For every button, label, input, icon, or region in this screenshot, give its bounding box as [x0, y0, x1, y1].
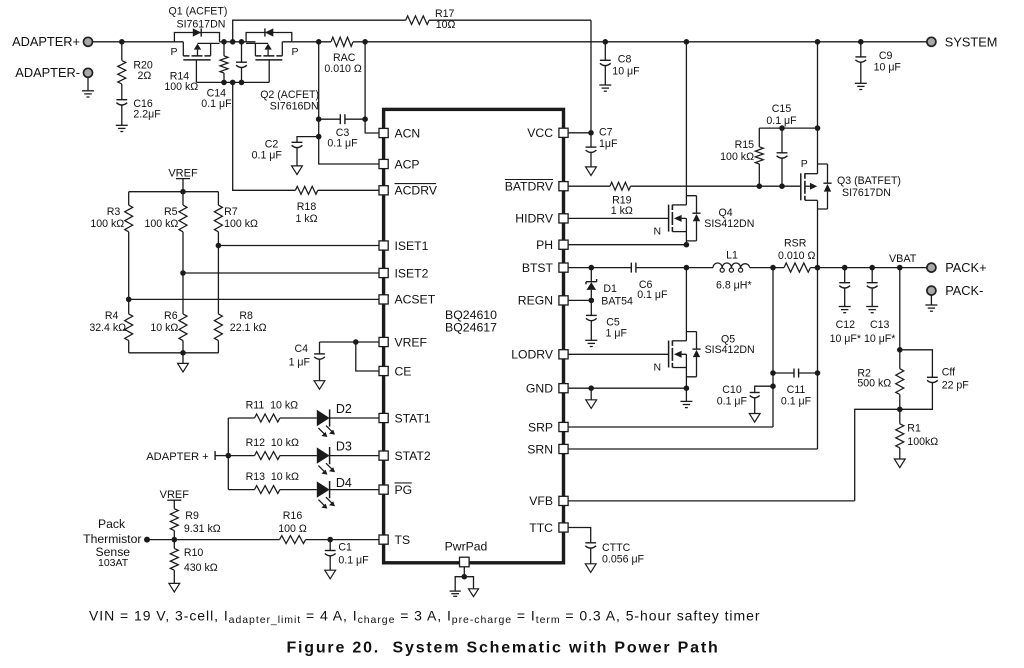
svg-text:Figure 20. System Schematic w: Figure 20. System Schematic with Power P… [286, 640, 719, 657]
ground C4 [314, 381, 325, 390]
wire VCC [568, 130, 594, 136]
ground C2 [292, 166, 303, 175]
svg-text:10 μF: 10 μF [874, 61, 902, 73]
svg-text:R7: R7 [224, 206, 238, 218]
wire L1 to RSR [750, 265, 784, 271]
ground GND left [586, 388, 597, 408]
resistor R16 [278, 510, 307, 543]
svg-text:BAT54: BAT54 [601, 296, 633, 308]
capacitor C8 [600, 42, 640, 85]
wire LED vertical [226, 418, 232, 490]
svg-text:SI7617DN: SI7617DN [177, 19, 226, 31]
svg-text:SRP: SRP [528, 420, 553, 434]
wire BTST [568, 265, 631, 271]
svg-text:SI7617DN: SI7617DN [842, 187, 891, 199]
wire SRP [568, 268, 776, 427]
svg-text:R12 10 kΩ: R12 10 kΩ [246, 437, 299, 449]
svg-text:REGN: REGN [518, 294, 553, 308]
svg-text:100 kΩ: 100 kΩ [224, 218, 258, 230]
svg-text:CTTC: CTTC [602, 542, 631, 554]
svg-text:R4: R4 [105, 310, 119, 322]
wire TS net [147, 537, 280, 543]
svg-text:1 kΩ: 1 kΩ [295, 213, 317, 225]
svg-text:C13: C13 [870, 319, 890, 331]
svg-text:9.31 kΩ: 9.31 kΩ [184, 523, 221, 535]
svg-text:RSR: RSR [784, 238, 807, 250]
pin ISET2 [379, 266, 429, 280]
wire divider bottom rail [129, 350, 219, 363]
capacitor Cff [900, 350, 970, 410]
junction BTST/PH/L1 node [684, 265, 690, 271]
svg-text:100 kΩ: 100 kΩ [720, 151, 754, 163]
caption figure title [286, 640, 719, 657]
wire BATDRV to Q3 gate [631, 183, 801, 189]
pin PG [379, 483, 412, 497]
svg-text:R8: R8 [239, 310, 253, 322]
wire CE [356, 342, 379, 371]
svg-text:C4: C4 [294, 343, 308, 355]
svg-text:1μF: 1μF [599, 138, 618, 150]
resistor RAC [324, 37, 361, 75]
svg-text:VIN = 19 V, 3-cell, Iadapter_l: VIN = 19 V, 3-cell, Iadapter_limit = 4 A… [89, 608, 760, 627]
svg-text:STAT2: STAT2 [395, 449, 431, 463]
ground C8 [599, 85, 611, 91]
node ADAPTER + (LED supply) [146, 451, 228, 463]
svg-text:430 kΩ: 430 kΩ [184, 562, 218, 574]
svg-text:R3: R3 [107, 206, 121, 218]
ground C12 [839, 307, 851, 313]
svg-text:100 Ω: 100 Ω [278, 523, 307, 535]
wire REGN [568, 298, 594, 304]
capacitor C13 [864, 268, 895, 345]
resistor R17 [233, 8, 591, 133]
svg-text:Q3 (BATFET): Q3 (BATFET) [837, 175, 901, 187]
svg-text:N: N [654, 226, 662, 238]
svg-text:R1: R1 [907, 422, 921, 434]
svg-text:10 μF: 10 μF [612, 65, 640, 77]
LED D4 [280, 476, 379, 509]
junction divider mid [897, 407, 903, 413]
svg-text:R15: R15 [735, 139, 755, 151]
svg-text:Thermistor: Thermistor [83, 532, 141, 546]
pin ACDRV [379, 184, 438, 198]
svg-text:VCC: VCC [527, 126, 553, 140]
transistor Q5 SIS412DN [568, 268, 755, 389]
svg-text:C7: C7 [599, 127, 613, 139]
wire R18 to ACDRV pin [318, 189, 379, 191]
ground R1 [894, 459, 905, 468]
wire SRN [568, 268, 820, 449]
wire VFB [568, 409, 900, 501]
svg-text:P: P [292, 46, 299, 58]
svg-text:P: P [170, 46, 177, 58]
svg-text:D2: D2 [336, 402, 352, 416]
caption conditions line [89, 608, 760, 627]
resistor R13 [228, 471, 299, 494]
resistor R14 [164, 42, 228, 93]
ground C9 [855, 83, 867, 89]
pin SRN [527, 442, 568, 456]
svg-text:PG: PG [395, 483, 413, 497]
wire RAC to SYSTEM rail [353, 39, 927, 45]
diode D1 BAT54 [586, 268, 633, 308]
svg-text:0.1 μF: 0.1 μF [201, 98, 232, 110]
svg-text:R9: R9 [185, 510, 199, 522]
svg-text:CE: CE [395, 364, 412, 378]
ground PwrPad right [469, 589, 479, 597]
resistor R6 [150, 273, 187, 353]
svg-text:C15: C15 [772, 103, 792, 115]
ground C7 [586, 167, 597, 176]
node Pack Thermistor Sense [83, 517, 150, 569]
svg-text:2.2μF: 2.2μF [133, 109, 161, 121]
ground C13 [866, 307, 878, 313]
svg-text:0.010 Ω: 0.010 Ω [324, 63, 361, 75]
svg-text:R16: R16 [283, 510, 303, 522]
svg-text:TS: TS [395, 533, 411, 547]
wire Q1-Q2 common node [220, 39, 256, 45]
svg-text:VBAT: VBAT [889, 253, 917, 265]
capacitor C16 [116, 84, 161, 125]
svg-text:VFB: VFB [529, 494, 553, 508]
svg-text:BTST: BTST [522, 261, 554, 275]
wire GND [568, 385, 689, 391]
pin BTST [522, 261, 568, 275]
svg-text:SIS412DN: SIS412DN [705, 344, 755, 356]
svg-text:SIS412DN: SIS412DN [704, 218, 754, 230]
inductor L1 [686, 250, 751, 292]
svg-text:C11: C11 [787, 384, 806, 396]
svg-text:100 kΩ: 100 kΩ [144, 218, 178, 230]
pin ACP [379, 157, 420, 171]
resistor R20 [118, 42, 153, 84]
pin ACSET [379, 293, 436, 307]
svg-text:0.010 Ω: 0.010 Ω [778, 250, 815, 262]
resistor R18 [295, 186, 317, 225]
ground CTTC [585, 564, 596, 573]
ground C1 [325, 570, 336, 579]
svg-text:2Ω: 2Ω [138, 70, 152, 82]
svg-text:10Ω: 10Ω [436, 19, 456, 31]
ground Q5 source [680, 388, 692, 407]
wire Q2 to RAC [282, 39, 331, 45]
pin VREF [379, 335, 427, 349]
capacitor C3 [319, 114, 365, 149]
svg-text:PwrPad: PwrPad [445, 540, 488, 554]
node ADAPTER+ terminal [12, 34, 92, 49]
svg-text:Q1 (ACFET): Q1 (ACFET) [169, 6, 228, 18]
svg-text:10 μF*: 10 μF* [864, 333, 895, 345]
svg-text:PACK-: PACK- [945, 283, 983, 298]
svg-text:BQ24617: BQ24617 [445, 321, 497, 335]
wire PH [568, 242, 689, 248]
svg-text:R13 10 kΩ: R13 10 kΩ [246, 471, 299, 483]
node PACK+ terminal [927, 260, 987, 275]
ground R10 [169, 583, 180, 592]
svg-text:C9: C9 [879, 50, 893, 62]
svg-text:Pack: Pack [98, 517, 126, 531]
svg-text:100 kΩ: 100 kΩ [90, 218, 124, 230]
svg-text:0.056 μF: 0.056 μF [602, 554, 645, 566]
svg-text:0.1 μF: 0.1 μF [338, 555, 369, 567]
resistor R12 [228, 437, 299, 460]
LED D3 [280, 440, 379, 475]
resistor R15 [720, 128, 763, 186]
svg-text:PH: PH [536, 238, 553, 252]
pin REGN [518, 294, 568, 308]
svg-text:0.1 μF: 0.1 μF [252, 149, 283, 161]
svg-text:1 μF: 1 μF [289, 357, 311, 369]
svg-text:C10: C10 [722, 384, 742, 396]
resistor RSR [778, 238, 815, 273]
svg-text:SI7616DN: SI7616DN [270, 101, 319, 113]
svg-text:PACK+: PACK+ [945, 260, 986, 275]
capacitor C4 [289, 342, 325, 381]
svg-text:ADAPTER +: ADAPTER + [146, 451, 208, 463]
wire ISET2 [180, 232, 379, 276]
svg-text:Cff: Cff [942, 366, 955, 378]
wire ACN vertical [362, 42, 379, 133]
pin STAT1 [379, 411, 431, 425]
wire ACSET [126, 232, 379, 302]
pin VCC [527, 126, 568, 140]
svg-text:103AT: 103AT [98, 557, 129, 569]
svg-text:100kΩ: 100kΩ [907, 436, 938, 448]
svg-text:R6: R6 [164, 310, 178, 322]
svg-text:C1: C1 [338, 542, 352, 554]
svg-text:0.1 μF: 0.1 μF [717, 395, 748, 407]
svg-text:ADAPTER-: ADAPTER- [15, 65, 80, 80]
svg-text:500 kΩ: 500 kΩ [857, 378, 891, 390]
resistor R1 [896, 409, 938, 459]
transistor Q4 SIS412DN [568, 42, 754, 245]
svg-text:D3: D3 [336, 440, 352, 454]
pin TTC [529, 521, 568, 535]
ground C5 [585, 340, 597, 346]
resistor R5 [144, 192, 187, 232]
node VREF supply (resistor network) [168, 167, 198, 191]
wire VREF pin [320, 339, 380, 345]
capacitor C15 [766, 103, 797, 186]
svg-text:0.1 μF: 0.1 μF [327, 138, 358, 150]
ground PwrPad left [450, 591, 461, 596]
capacitor C6 [631, 263, 686, 302]
capacitor C7 [586, 127, 618, 167]
svg-text:GND: GND [526, 382, 553, 396]
svg-text:SYSTEM: SYSTEM [945, 34, 998, 49]
svg-text:R10: R10 [184, 547, 204, 559]
pin TS [379, 533, 410, 547]
svg-text:STAT1: STAT1 [395, 411, 431, 425]
svg-text:SRN: SRN [527, 442, 553, 456]
wire ACDRV vertical [233, 82, 296, 190]
wire VBAT rail [810, 253, 927, 271]
pin ACN [379, 126, 420, 140]
pin BATDRV [505, 180, 568, 194]
transistor Q2 ACFET SI7616DN [246, 28, 319, 112]
wire C15 top [759, 125, 820, 131]
svg-text:ISET2: ISET2 [395, 266, 429, 280]
svg-text:32.4 kΩ: 32.4 kΩ [89, 322, 126, 334]
svg-text:D1: D1 [603, 283, 617, 295]
svg-text:0.1 μF: 0.1 μF [781, 395, 812, 407]
svg-text:22.1 kΩ: 22.1 kΩ [230, 322, 267, 334]
resistor R4 [89, 299, 132, 352]
capacitor C2 [252, 137, 319, 166]
capacitor C1 [325, 540, 369, 571]
transistor Q3 BATFET SI7617DN [801, 42, 901, 268]
pin PwrPad [445, 540, 488, 567]
svg-text:10 kΩ: 10 kΩ [150, 322, 178, 334]
svg-text:ISET1: ISET1 [395, 239, 429, 253]
svg-text:VREF: VREF [168, 167, 198, 179]
wire ACP vertical [316, 42, 379, 164]
svg-text:C12: C12 [836, 319, 856, 331]
wire ADAPTER+ to Q1 [92, 39, 183, 45]
capacitor C11 [773, 369, 818, 408]
node SYSTEM terminal [927, 34, 998, 49]
ground C16 [116, 125, 128, 131]
resistor R3 [90, 192, 132, 232]
ground divider [178, 363, 189, 372]
svg-text:22 pF: 22 pF [942, 379, 970, 391]
svg-text:L1: L1 [726, 250, 738, 262]
svg-text:1 kΩ: 1 kΩ [611, 205, 633, 217]
svg-text:VREF: VREF [395, 335, 428, 349]
svg-text:ACDRV: ACDRV [395, 184, 438, 198]
pin STAT2 [379, 449, 431, 463]
pin CE [379, 364, 411, 378]
ground C10 [749, 414, 760, 423]
svg-text:ACN: ACN [395, 126, 421, 140]
svg-text:VREF: VREF [160, 489, 190, 501]
capacitor C9 [855, 42, 901, 84]
svg-text:N: N [654, 361, 662, 373]
resistor R19 [568, 182, 633, 217]
svg-text:0.1 μF: 0.1 μF [766, 115, 797, 127]
pin GND [526, 382, 568, 396]
wire R16 to TS pin [306, 537, 379, 543]
capacitor C5 [586, 300, 628, 340]
pin SRP [528, 420, 568, 434]
svg-text:0.1 μF: 0.1 μF [637, 289, 668, 301]
resistor R7 [214, 192, 258, 232]
pin VFB [529, 494, 568, 508]
pin HIDRV [515, 212, 568, 226]
ground PACK- [925, 295, 937, 311]
capacitor CTTC [568, 528, 644, 566]
svg-text:ACP: ACP [395, 157, 420, 171]
capacitor C12 [830, 268, 861, 345]
svg-text:Q2 (ACFET): Q2 (ACFET) [260, 89, 319, 101]
capacitor C14 [201, 42, 247, 110]
wire VREF rail [129, 189, 219, 195]
svg-text:HIDRV: HIDRV [515, 212, 554, 226]
svg-text:R11 10 kΩ: R11 10 kΩ [246, 400, 299, 412]
svg-text:ADAPTER+: ADAPTER+ [12, 34, 80, 49]
resistor R8 [214, 246, 266, 353]
op-amp U1 charge controller BQ24610 IC body [384, 109, 564, 562]
LED D2 [280, 402, 379, 437]
svg-text:D4: D4 [336, 476, 352, 490]
svg-text:R5: R5 [164, 206, 178, 218]
wire VBAT to divider [897, 268, 903, 353]
wire ISET1 [216, 232, 379, 249]
resistor R2 [857, 350, 903, 410]
svg-text:P: P [801, 158, 808, 170]
resistor R10 [170, 540, 218, 584]
capacitor C10 [717, 384, 773, 414]
svg-text:100 kΩ: 100 kΩ [164, 81, 198, 93]
svg-text:R18: R18 [297, 201, 317, 213]
node VREF supply (thermistor) [160, 489, 190, 509]
node PACK- terminal [927, 283, 983, 298]
svg-text:6.8 μH*: 6.8 μH* [716, 280, 752, 292]
wire Q1/Q2 gate rail [196, 80, 269, 86]
svg-text:ACSET: ACSET [395, 293, 436, 307]
svg-text:BATDRV: BATDRV [505, 180, 554, 194]
resistor R9 [170, 509, 220, 540]
pin LODRV [511, 348, 568, 362]
ground ADAPTER- [82, 77, 94, 97]
wire PwrPad to grounds [455, 567, 473, 591]
node ADAPTER- terminal [15, 65, 92, 80]
transistor Q1 ACFET SI7617DN [169, 6, 228, 83]
pin PH [536, 238, 568, 252]
svg-text:10 μF*: 10 μF* [830, 333, 861, 345]
svg-text:LODRV: LODRV [511, 348, 554, 362]
svg-text:TTC: TTC [529, 521, 553, 535]
svg-text:C8: C8 [618, 54, 632, 66]
svg-text:1 μF: 1 μF [606, 328, 628, 340]
resistor R11 [228, 400, 298, 422]
pin ISET1 [379, 239, 429, 253]
